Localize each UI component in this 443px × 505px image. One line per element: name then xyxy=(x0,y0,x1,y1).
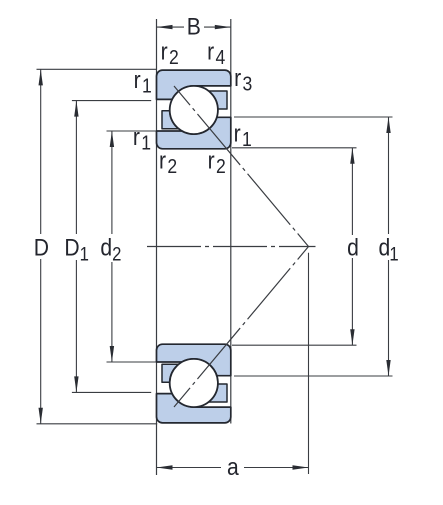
svg-text:d: d xyxy=(347,234,359,261)
dimension a (bottom) xyxy=(157,467,309,469)
svg-text:r3: r3 xyxy=(234,65,252,95)
dimension D xyxy=(40,69,42,423)
svg-text:d2: d2 xyxy=(100,234,121,264)
dimension d xyxy=(351,148,353,345)
bearing section bottom (mirror) xyxy=(157,344,231,423)
svg-text:D: D xyxy=(34,234,49,261)
svg-text:r1: r1 xyxy=(234,120,252,150)
svg-text:r2: r2 xyxy=(208,147,226,177)
svg-text:r1: r1 xyxy=(133,124,151,154)
svg-text:d1: d1 xyxy=(379,234,399,264)
bearing section top xyxy=(157,70,231,149)
contact line bottom diagonal xyxy=(174,247,309,408)
extension line d bottom xyxy=(232,344,357,346)
extension line d top xyxy=(232,147,357,149)
dimension d1 xyxy=(388,117,390,376)
svg-text:B: B xyxy=(187,13,201,40)
wire: left section vertical line xyxy=(156,19,158,475)
extension line d2 bottom xyxy=(107,361,157,363)
svg-text:r4: r4 xyxy=(207,38,225,68)
node apex vertical (a right extension) xyxy=(308,253,310,474)
extension line d1 bottom xyxy=(234,375,393,377)
svg-text:r1: r1 xyxy=(134,67,152,97)
wire: right section vertical line xyxy=(230,19,232,424)
svg-text:r2: r2 xyxy=(161,38,179,68)
extension line D bottom xyxy=(37,423,158,425)
extension line D1 top xyxy=(72,100,151,102)
centre line (axis) xyxy=(147,246,316,248)
dimension D1 xyxy=(75,101,77,393)
extension line D1 bottom xyxy=(72,391,151,393)
svg-text:r2: r2 xyxy=(159,147,177,177)
extension line d1 top xyxy=(234,116,393,118)
svg-text:D1: D1 xyxy=(64,234,89,264)
extension line d2 top xyxy=(107,130,157,132)
svg-text:a: a xyxy=(227,454,239,481)
extension line D top xyxy=(37,68,157,70)
dimension d2 xyxy=(111,131,113,362)
contact line top diagonal xyxy=(174,86,309,247)
dimension B (top) xyxy=(157,26,231,28)
